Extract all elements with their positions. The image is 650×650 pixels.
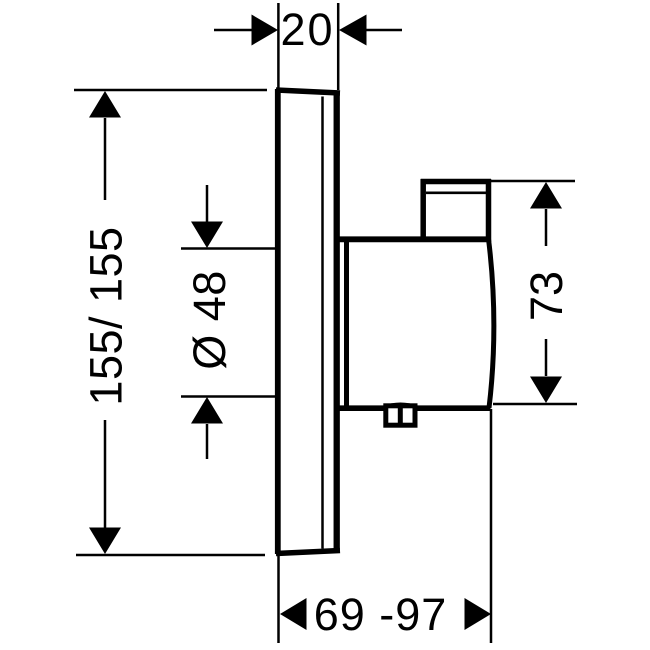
plate top edge [276, 90, 340, 93]
dim 155/155: lower dimension line segment [104, 420, 107, 529]
plate inner face line [321, 97, 324, 549]
dim 155/155: bottom extension line [76, 554, 265, 557]
svg-text:155/ 155: 155/ 155 [81, 226, 132, 405]
dim d48: top arrow tail [206, 185, 209, 222]
dim 20: left extension line [277, 3, 280, 88]
valve body bottom edge [334, 405, 491, 411]
stop stub left edge [420, 179, 426, 240]
svg-text:73: 73 [521, 271, 572, 321]
svg-text:69 -97: 69 -97 [314, 589, 448, 640]
stop stub inner line [426, 192, 486, 195]
dim 73: top extension line [491, 180, 575, 183]
dim 20: right leader line [365, 29, 402, 32]
dim 69-97: right arrowhead [465, 598, 492, 630]
dim 73: up arrowhead [530, 182, 562, 209]
plate left edge [275, 89, 281, 554]
dim 20: label text [280, 4, 334, 55]
stop stub right edge [486, 179, 492, 242]
dim d48: bottom arrowhead (up) [191, 397, 223, 424]
plate bottom edge [276, 551, 340, 554]
svg-text:Ø 48: Ø 48 [184, 270, 235, 370]
valve body left edge [344, 239, 349, 408]
dim d48: top boundary line [181, 247, 276, 250]
dim d48: bottom boundary line [181, 395, 276, 398]
dim 20: left arrowhead [252, 15, 279, 46]
bottom connector tab [384, 404, 418, 425]
dim 73: upper dimension line segment [545, 209, 548, 246]
dim 155/155: up arrowhead [89, 91, 121, 118]
dim 20: right arrowhead [339, 15, 367, 46]
dim 69-97: label text [314, 589, 448, 640]
dim 73: bottom extension line [493, 403, 577, 406]
plate right edge [334, 92, 340, 552]
dim 155/155: label text [81, 226, 132, 405]
valve body top edge [334, 236, 489, 242]
dim 69-97: right extension line [490, 409, 493, 643]
dim d48: top arrowhead (down) [191, 222, 223, 249]
stop stub top edge [421, 179, 491, 185]
dim d48: bottom arrow tail [206, 424, 209, 459]
dim 69-97: left extension line [277, 556, 280, 643]
dim 155/155: top extension line [74, 89, 267, 92]
dim 20: left leader line [214, 29, 253, 32]
valve body right edge arc [489, 239, 494, 408]
dim d48: label text [184, 270, 235, 370]
dim 155/155: upper dimension line segment [104, 118, 107, 200]
dim 20: right extension line [337, 3, 340, 90]
dim 69-97: left arrowhead [280, 598, 307, 630]
dim 73: lower dimension line segment [545, 339, 548, 376]
dim 155/155: down arrowhead [89, 528, 121, 555]
dim 73: down arrowhead [530, 377, 562, 404]
dim 73: label text [521, 271, 572, 321]
svg-text:20: 20 [280, 4, 334, 55]
